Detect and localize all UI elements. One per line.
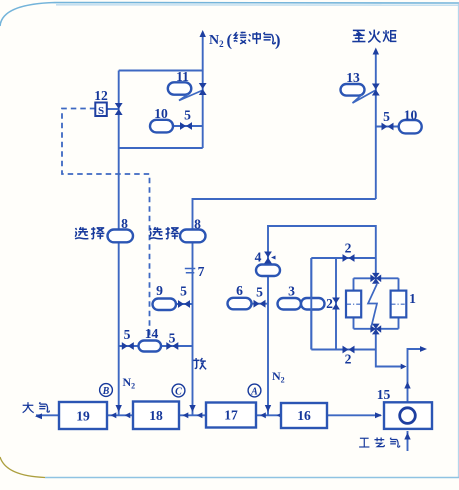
svg-text:B: B <box>102 386 110 397</box>
svg-text:5: 5 <box>180 284 187 299</box>
svg-text:): ) <box>275 31 281 50</box>
svg-text:5: 5 <box>256 285 263 300</box>
svg-text:5: 5 <box>383 109 390 124</box>
svg-text:18: 18 <box>149 408 163 423</box>
svg-text:A: A <box>250 387 258 398</box>
svg-text:5: 5 <box>184 108 191 123</box>
svg-text:(: ( <box>227 31 233 50</box>
svg-text:17: 17 <box>224 408 238 423</box>
svg-text:15: 15 <box>377 387 391 402</box>
svg-text:10: 10 <box>154 106 168 121</box>
svg-text:N2: N2 <box>272 369 285 385</box>
svg-text:3: 3 <box>288 284 295 299</box>
svg-text:2: 2 <box>326 296 333 311</box>
svg-text:8: 8 <box>194 217 201 232</box>
svg-text:C: C <box>175 387 182 398</box>
svg-text:5: 5 <box>169 331 176 346</box>
svg-text:2: 2 <box>345 241 352 256</box>
svg-text:1: 1 <box>409 291 416 306</box>
svg-text:10: 10 <box>404 108 418 123</box>
svg-text:S: S <box>98 105 104 117</box>
svg-text:2: 2 <box>345 352 352 367</box>
svg-text:4: 4 <box>255 250 262 265</box>
svg-text:8: 8 <box>121 216 128 231</box>
svg-text:14: 14 <box>145 326 159 341</box>
svg-text:N2: N2 <box>123 375 136 391</box>
svg-text:7: 7 <box>198 264 205 279</box>
svg-text:19: 19 <box>76 409 90 424</box>
svg-text:5: 5 <box>124 327 131 342</box>
svg-text:16: 16 <box>297 408 311 423</box>
svg-text:9: 9 <box>156 283 163 298</box>
svg-text:11: 11 <box>176 69 189 84</box>
svg-text:6: 6 <box>236 283 243 298</box>
svg-text:N2: N2 <box>209 33 224 49</box>
svg-text:12: 12 <box>94 88 108 103</box>
svg-text:13: 13 <box>346 70 360 85</box>
